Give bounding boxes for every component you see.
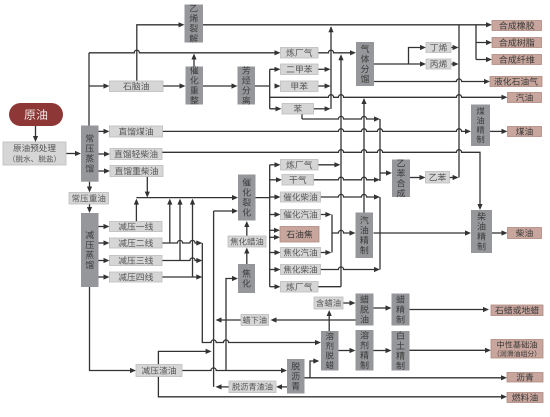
wire branch-to-naphtha [89, 83, 110, 88]
液化石油气 [490, 77, 542, 87]
乙苯 [426, 172, 450, 184]
wire vac1-riser [134, 199, 139, 222]
wire vac-out-260 [99, 258, 110, 263]
wire gasfrac-to-lpg [374, 79, 490, 84]
蜡下油 [241, 315, 269, 326]
wire dist-drygas [270, 177, 282, 182]
wire vacresidue-to-sda [182, 368, 287, 373]
wire naphtha-to-reformer [163, 83, 186, 88]
煤油 [508, 127, 542, 137]
wire solvref-to-clay [374, 348, 392, 353]
box 原油预处理（脱水、脱盐） [3, 142, 66, 165]
crude oil pill 原油 [9, 103, 63, 126]
wire benzene-to-eb-vert [301, 114, 303, 119]
wire catgasoline-out [321, 212, 333, 253]
wire vac4-line [162, 274, 202, 279]
wire daoresidue-out [216, 384, 230, 389]
box 炼厂气 (middle) [281, 160, 319, 171]
wire lube-collector [202, 243, 321, 345]
wire atmos-to-residue [87, 182, 92, 193]
wire atmos-top-to-gas-line [89, 50, 278, 53]
wire aromsep-dist [255, 67, 282, 112]
wire dieselrefine-feed [374, 230, 472, 235]
wire benzene-feed-line [302, 116, 380, 121]
石油焦 [280, 227, 319, 243]
wire cokerwax-up [244, 221, 249, 236]
wire reformer-to-aromsep [203, 83, 238, 88]
wire dist-cokediesel [270, 267, 281, 272]
wire deoil-to-foots [271, 317, 356, 322]
石蜡或地蜡 [491, 305, 543, 316]
溶剂精制 [356, 330, 374, 371]
wire gasrefine-up [361, 98, 366, 213]
wire dist-refgas3 [270, 284, 281, 289]
wire vac3-line [162, 258, 202, 263]
wire heavydiesel-down [145, 177, 150, 198]
减压四线 [110, 272, 163, 282]
苯 [282, 104, 314, 115]
催化重整 [186, 66, 204, 104]
催化裂化 [238, 175, 256, 221]
丙烯 [426, 59, 451, 69]
wire coker-riser-lower [225, 320, 227, 371]
气体分馏 [356, 42, 374, 86]
wire ebsynth-to-eb [410, 175, 426, 180]
炼厂气 [281, 48, 319, 59]
wire coker-up [244, 248, 249, 265]
wire vac3-riser [177, 199, 182, 261]
白土精制 [392, 331, 410, 371]
wire atmos-to-kero [99, 129, 110, 134]
wire waxrefine-out [410, 307, 490, 312]
wire gasline-to-gasfrac [318, 50, 356, 55]
焦化汽油 [281, 248, 321, 258]
减压蒸馏 [81, 213, 99, 287]
wire gasfrac-to-butene-propene [374, 45, 426, 67]
焦化柴油 [281, 265, 321, 275]
wire fcc-feed [136, 195, 238, 200]
减压二线 [110, 238, 163, 248]
wire fcc-feed2 [214, 208, 238, 213]
wire vac-out-226 [99, 224, 110, 229]
wire dist-catgasoline [270, 212, 281, 217]
催化汽油 [281, 210, 321, 220]
wire dist-coke2 [270, 235, 280, 240]
常压蒸馏 [81, 126, 99, 182]
柴油精制 [471, 210, 492, 253]
wire diesel-vertical [379, 197, 381, 270]
减压一线 [110, 222, 163, 232]
wire gasoline-refine-feed [332, 230, 356, 235]
wire atmos-top riser [88, 53, 90, 126]
甲苯 [281, 81, 319, 92]
脱沥青 [287, 359, 305, 394]
box 中性基础油（润滑油组分） [491, 340, 543, 359]
wire arom-collector [328, 26, 333, 109]
wire dist-coke1 [270, 228, 280, 233]
wire cokegasoline-out [321, 250, 332, 255]
燃料油 [507, 393, 543, 403]
芳烃分离 [238, 66, 256, 104]
wire gas-collector [318, 54, 344, 286]
wire toluene-out [318, 83, 331, 88]
wire kerorefine-out [490, 129, 508, 134]
wire vac2-riser [167, 199, 172, 243]
wire footsoil-out [216, 317, 242, 322]
wire atmresidue-to-vac [87, 204, 92, 213]
wire vac-bottom [90, 287, 137, 373]
wire drygas-line [314, 177, 381, 182]
沥青 [507, 373, 543, 383]
wire dieselrefine-out [492, 230, 508, 235]
wire eb-to-collector [450, 175, 459, 180]
含蜡油 [314, 297, 343, 309]
wire butene-out [451, 45, 459, 50]
直馏轻柴油 [110, 149, 162, 160]
wire vacresidue-up [158, 349, 211, 365]
wire cracker-out-trunk [203, 22, 492, 27]
汽油精制 [356, 213, 374, 259]
合成树脂 [492, 38, 542, 48]
wire dewax-to-solvref [339, 348, 356, 353]
脱沥青渣油 [229, 381, 276, 393]
催化柴油 [281, 192, 321, 202]
wire refgas2-out [318, 162, 340, 167]
wire synth-collector [458, 25, 460, 178]
乙烯裂解 [185, 5, 204, 43]
丁烯 [426, 43, 451, 53]
wire xylene-out [318, 67, 331, 72]
box 炼厂气 (bottom) [281, 282, 319, 293]
wire pretreat-to-atmos [66, 151, 81, 156]
柴油 [508, 228, 542, 239]
焦化 [238, 264, 255, 293]
wire fueloil-line [158, 377, 507, 400]
wire vac2-line [162, 240, 202, 245]
直馏重柴油 [110, 166, 163, 177]
焦化蜡油 [228, 236, 266, 247]
常压重油 [69, 193, 109, 205]
干气 [282, 175, 314, 186]
石脑油 [110, 81, 164, 92]
wire waxoil-to-deoil [343, 300, 356, 305]
二甲苯 [281, 64, 319, 75]
wire coker-feed [226, 276, 238, 320]
减压渣油 [136, 365, 182, 377]
合成橡胶 [492, 21, 542, 31]
wire vac-out-243 [99, 240, 110, 245]
乙苯合成 [392, 160, 410, 198]
煤油精制 [471, 105, 490, 147]
蜡脱油 [356, 294, 374, 326]
减压三线 [110, 256, 163, 266]
wire catdiesel-line [321, 194, 381, 199]
wire dist-catdiesel [270, 194, 281, 199]
合成纤维 [492, 55, 542, 65]
wire naphtha-to-cracker [137, 22, 185, 81]
蜡精制 [392, 294, 410, 326]
wire atmos-to-lightdiesel [99, 151, 111, 156]
wire sda-out-right [305, 358, 508, 380]
wire crude-to-pretreat [33, 126, 38, 142]
wire atmos-to-heavydiesel [99, 168, 111, 173]
wire benzene-out [314, 106, 331, 111]
wire eb-branch [380, 170, 392, 175]
wire dist-refgas2 [270, 162, 281, 167]
wire sda-to-daoresidue [276, 384, 287, 389]
wire vac-out-277 [99, 274, 110, 279]
wire dist-cokegasoline [270, 250, 281, 255]
wire clay-out [410, 348, 492, 353]
wire reformer-up [191, 54, 196, 67]
wire dewax-to-waxoil [327, 310, 332, 331]
wire lightdiesel-line [162, 150, 483, 210]
wire synth-branch [476, 25, 492, 62]
wire cokediesel-line [321, 267, 381, 272]
wire eb-vertical [379, 119, 381, 181]
wire vac4-riser [190, 199, 195, 277]
wire kero-line [163, 129, 472, 134]
wire deoil-to-waxrefine [374, 305, 392, 310]
wire propene-out [451, 61, 459, 66]
wire gasoline-line [270, 95, 508, 100]
直馏煤油 [110, 126, 163, 137]
溶剂脱蜡 [321, 331, 339, 371]
汽油 [508, 93, 542, 103]
wire residue-collector [213, 211, 215, 387]
wire fcc-out [256, 165, 270, 287]
